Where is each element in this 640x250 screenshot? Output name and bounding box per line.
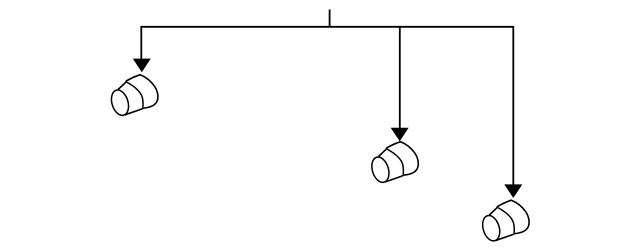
part: sensor 3 <box>480 200 529 243</box>
wire: top bracket horizontal <box>141 26 513 28</box>
part: sensor 1 <box>109 75 158 118</box>
part: sensor 2 <box>369 142 418 185</box>
wire: right drop <box>512 26 514 186</box>
arrow 1 <box>133 59 151 73</box>
arrow 2 <box>391 128 409 142</box>
wire: left drop <box>140 26 142 60</box>
arrow 3 <box>504 184 522 198</box>
wire: middle drop <box>399 26 401 129</box>
wire: center tick <box>329 10 331 27</box>
